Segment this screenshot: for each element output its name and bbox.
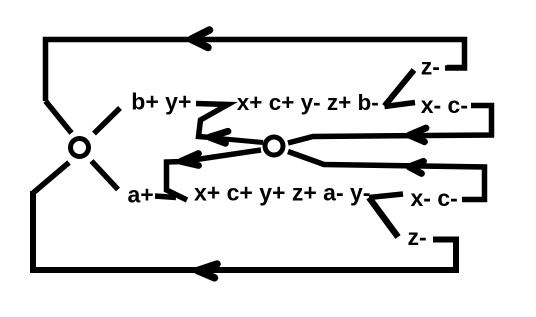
wire: upper-left diagonal into left node xyxy=(46,101,72,133)
wire: upper x- c- loop back into center node xyxy=(288,106,492,144)
arrowhead on lower return wire (pointing left) xyxy=(409,161,423,173)
node: left circle xyxy=(71,139,89,157)
wire: left node to b+ y+ xyxy=(94,108,120,134)
svg-text:x- c-: x- c- xyxy=(421,92,468,118)
arrowhead on top wire (pointing left) xyxy=(192,30,210,48)
wire: Z-connector from b+ y+ down to upper arrow xyxy=(196,104,228,138)
wire: bottom loop (left vertical, bottom horizontal, right rise to z-) xyxy=(33,191,456,270)
svg-text:x+ c+ y- z+ b-: x+ c+ y- z+ b- xyxy=(237,90,379,115)
wire: branch from y- down to bottom z- xyxy=(369,198,398,238)
arrowhead on upper return wire (pointing left) xyxy=(410,128,427,142)
arrowhead lower-left of center node (pointing left) xyxy=(181,154,199,166)
wire: branch from b- up to top z- xyxy=(385,70,415,106)
arrowhead on bottom wire (pointing left) xyxy=(198,264,218,278)
svg-text:z-: z- xyxy=(408,224,427,250)
wire: top loop (left vertical, top horizontal, right drop to z-) xyxy=(46,40,465,102)
wire: a+ to lower strand xyxy=(155,196,176,198)
svg-text:x- c-: x- c- xyxy=(411,185,458,211)
wire: top z- to top-right corner xyxy=(447,65,463,71)
wire: left node to a+ xyxy=(92,161,119,190)
wire: branch from y- to lower x- c- xyxy=(369,194,403,198)
svg-text:b+ y+: b+ y+ xyxy=(131,89,191,115)
svg-text:z-: z- xyxy=(421,54,440,80)
wire: center node to lower-left arrow, then down to x+ c+ y+ z+ a- y- xyxy=(167,150,262,200)
svg-text:x+ c+ y+ z+ a- y-: x+ c+ y+ z+ a- y- xyxy=(194,179,370,205)
wire: lower x- c- loop back into center node xyxy=(288,152,485,200)
arrowhead upper-left of center node (pointing left) xyxy=(210,131,228,143)
node: center circle xyxy=(265,137,283,155)
wire: center node to upper-left arrow xyxy=(211,138,263,143)
svg-text:a+: a+ xyxy=(128,182,154,208)
wire: branch from b- to upper x- c- xyxy=(385,103,416,107)
wire: left node to bottom-left corner xyxy=(33,163,69,194)
